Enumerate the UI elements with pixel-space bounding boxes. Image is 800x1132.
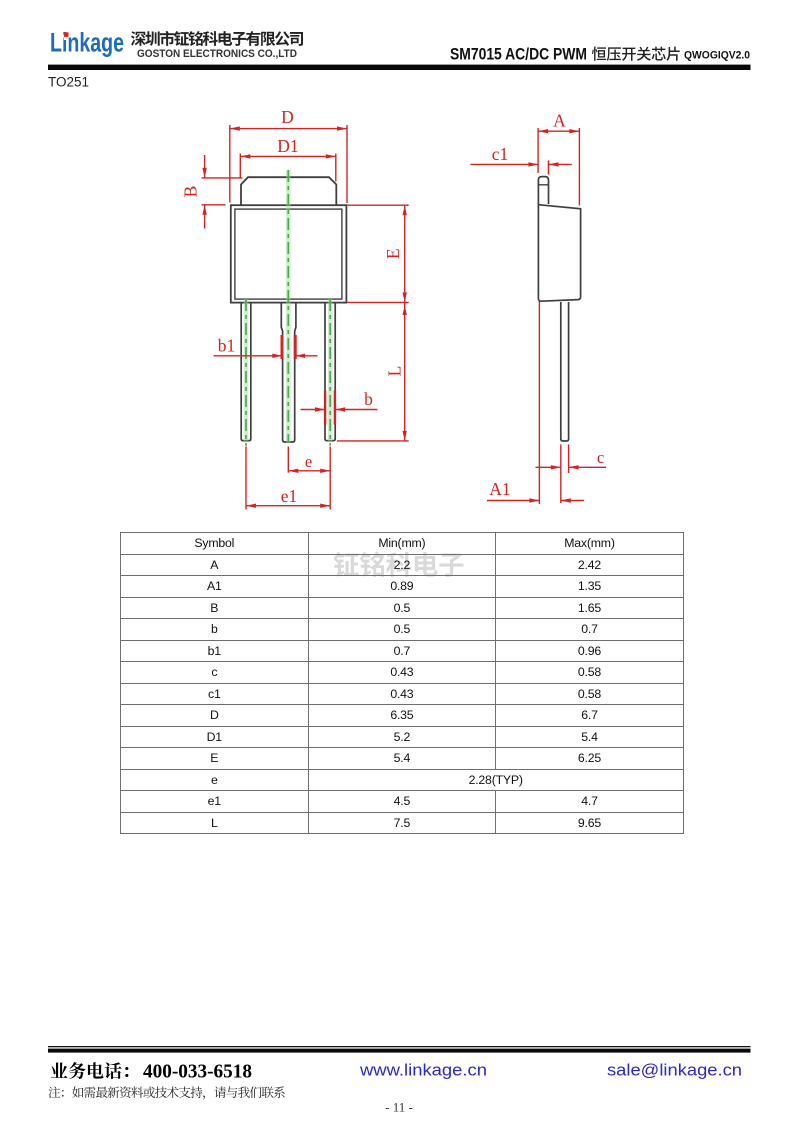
dim b1 extension lines (281, 335, 284, 359)
svg-text:e: e (305, 452, 312, 471)
dim e1 line (246, 505, 330, 507)
svg-text:GOSTON ELECTRONICS CO.,LTD: GOSTON ELECTRONICS CO.,LTD (137, 48, 297, 60)
svg-text:b1: b1 (218, 336, 236, 356)
dim L extension line (337, 440, 409, 442)
svg-text:www.linkage.cn: www.linkage.cn (359, 1061, 487, 1080)
dimension table (120, 532, 684, 834)
watermark (334, 552, 464, 577)
dim b line (301, 409, 326, 411)
dim D line (230, 128, 347, 130)
svg-text:c1: c1 (492, 144, 509, 164)
dim D1 extension lines (239, 154, 241, 179)
svg-text:- 11 -: - 11 - (385, 1100, 413, 1115)
dim B extension lines (202, 177, 243, 179)
dim A1 line (487, 500, 539, 502)
dim E extension lines (348, 204, 409, 206)
front view body outer rect (231, 205, 347, 302)
company name chinese (131, 31, 303, 46)
front view body inner rect (235, 209, 342, 299)
svg-text:D: D (281, 107, 294, 127)
svg-text:400-033-6518: 400-033-6518 (143, 1062, 252, 1083)
svg-text:L: L (385, 366, 405, 377)
svg-text:sale@linkage.cn: sale@linkage.cn (607, 1061, 742, 1080)
dim L line (404, 302, 406, 441)
side view lead (561, 302, 569, 441)
svg-text:TO251: TO251 (48, 75, 89, 90)
dim D extension lines (229, 125, 231, 203)
svg-text:Linkage: Linkage (50, 28, 124, 58)
side view tab (538, 177, 548, 205)
front view cap outline (241, 177, 336, 205)
dim b1 line (214, 355, 283, 357)
dim c1 tick (548, 161, 550, 175)
svg-text:QWOGIQV2.0: QWOGIQV2.0 (684, 50, 750, 62)
front view middle lead (281, 304, 296, 443)
svg-text:e1: e1 (281, 486, 298, 506)
svg-text:c: c (597, 448, 604, 467)
doc title chinese (592, 47, 680, 61)
dim E line (404, 205, 406, 302)
dim A extension lines (537, 128, 539, 173)
dim c extension lines (560, 444, 562, 503)
front view right lead (325, 304, 335, 441)
header rule (48, 65, 751, 70)
side view body (538, 205, 580, 302)
svg-text:SM7015 AC/DC PWM: SM7015 AC/DC PWM (450, 45, 587, 64)
dim e line (288, 470, 330, 472)
footer thin rule (48, 1046, 751, 1047)
dim B arrows (204, 155, 206, 178)
front view left lead centerline (244, 299, 249, 441)
dim A line (538, 130, 579, 132)
dim b extension lines (324, 391, 326, 425)
logo red i-dot (64, 32, 69, 37)
svg-text:A: A (553, 111, 566, 131)
dim c line (536, 466, 561, 468)
svg-text:D1: D1 (277, 136, 298, 156)
front view main centerline (286, 170, 291, 443)
front view left lead (241, 304, 251, 441)
svg-text:A1: A1 (489, 479, 510, 499)
dim e extension lines (245, 447, 247, 510)
dim c1 line (471, 163, 539, 165)
svg-text:b: b (364, 389, 373, 409)
dim D1 line (240, 155, 335, 157)
dim A1 extension line (538, 302, 540, 505)
footer note (49, 1086, 285, 1099)
svg-text:B: B (181, 186, 201, 198)
svg-text:E: E (383, 248, 403, 259)
footer thick rule (48, 1049, 751, 1053)
front view right lead centerline (328, 299, 333, 441)
footer phone chinese (51, 1062, 129, 1079)
